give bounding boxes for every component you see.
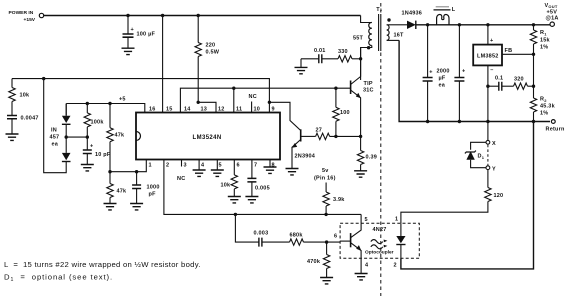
node rail-C100 [126,14,129,17]
wire pin15 to rail [162,16,164,113]
svg-text:55T: 55T [353,36,364,42]
node rail-R1 [532,23,535,26]
node emitter-0.39 [359,135,362,138]
wire FB [502,48,534,54]
node rail-cap2 [458,23,461,26]
wire output return rail [399,40,550,121]
svg-text:15: 15 [166,107,173,113]
resistor 47k lower [107,172,127,204]
svg-text:100 µF: 100 µF [137,32,156,38]
svg-text:IN: IN [51,128,57,134]
terminal Y [486,166,496,173]
svg-text:+: + [429,70,432,76]
ground pin7 [245,197,258,203]
resistor 220 0.5W [195,16,220,103]
svg-text:680k: 680k [290,233,304,239]
svg-text:5: 5 [365,217,368,223]
wire opto collector up [360,214,362,223]
svg-text:+: + [90,144,93,150]
opto LED [396,223,405,258]
wire output rail [416,24,550,26]
wire FB node to comp node [533,54,535,86]
svg-text:5v: 5v [322,168,329,174]
ground 10uF [81,165,94,171]
svg-text:+: + [490,38,493,44]
wire +15V rail [44,15,361,17]
wire control line pin2 [164,160,361,215]
svg-text:220: 220 [206,43,216,49]
svg-text:2N3904: 2N3904 [295,154,316,160]
svg-text:12: 12 [218,107,225,113]
node pin9 [268,101,271,104]
resistor 3.9k [323,183,345,215]
node TIP base [334,87,337,90]
resistor 0.39 [357,136,377,170]
node pins 12-13 [197,101,200,104]
wire primary bottom to collector [361,46,372,81]
ground pin6 [228,197,241,203]
svg-text:+15V: +15V [24,17,36,23]
svg-text:10 pF: 10 pF [95,152,111,158]
ground 47k lower [104,204,117,210]
svg-text:47k: 47k [115,133,126,139]
stub pin3 NC [177,160,185,183]
node return-cap1 [426,120,429,123]
svg-text:0.005: 0.005 [255,186,270,192]
svg-text:LM3524N: LM3524N [193,135,222,141]
svg-text:47k: 47k [117,189,128,195]
svg-text:NC: NC [249,94,257,100]
svg-text:POWER IN: POWER IN [9,10,34,16]
capacitor 100uF [123,16,156,49]
svg-text:2000: 2000 [437,69,450,75]
resistor R2 45.3k [530,86,555,121]
wire clamp vertical [44,79,66,173]
svg-text:1: 1 [149,163,152,169]
svg-text:320: 320 [514,77,524,83]
wire secondary bottom [387,39,399,41]
inductor L [434,7,456,25]
svg-text:0.39: 0.39 [366,155,378,161]
ground 1000pF [130,204,143,210]
svg-text:16T: 16T [394,33,405,39]
svg-text:10k: 10k [20,93,31,99]
stub pin11 [233,88,235,112]
phase dot secondary [387,18,390,21]
node snubber-collector [359,57,362,60]
svg-text:FB: FB [505,48,513,54]
svg-text:11: 11 [236,107,242,113]
svg-text:LM3852: LM3852 [477,54,499,60]
resistor 100 [333,88,350,136]
node pin1-1000pF [135,170,138,173]
svg-text:6: 6 [237,163,240,169]
terminal VOUT [550,22,554,26]
capacitor 2000uF no2 [454,25,465,122]
wire diode top [65,104,67,116]
wire feedback down [235,214,258,242]
stub pin8 ground [264,160,277,174]
ground 0.39 [354,171,367,177]
svg-text:X: X [492,141,496,147]
wire rail to transformer primary [361,16,372,23]
capacitor 0.005 pin7 [247,160,269,197]
ground 2N3904 [286,169,299,175]
svg-text:9: 9 [272,107,275,113]
resistor 47k upper [107,104,125,172]
svg-text:Y: Y [492,167,496,173]
svg-text:5: 5 [219,163,222,169]
label IN457 ea [50,128,60,148]
svg-text:ea: ea [439,83,446,89]
svg-text:100k: 100k [91,120,105,126]
svg-text:1: 1 [395,217,398,223]
node reg-comp [486,85,489,88]
node +5-100k [86,102,89,105]
svg-text:3: 3 [184,163,187,169]
transformer T1 primary 55T [353,22,372,45]
node rail-cap1 [426,23,429,26]
svg-text:0.01: 0.01 [314,48,326,54]
svg-text:0.1: 0.1 [495,76,503,82]
label POWER IN +15V [9,10,36,23]
svg-text:27: 27 [316,128,323,134]
node 100-27 [334,135,337,138]
capacitor 1000pF [132,172,160,204]
svg-text:R2: R2 [540,97,547,103]
label 5v Pin16 [314,168,336,182]
svg-text:µF: µF [439,76,446,82]
wire emitters line pins 14 11 [180,88,350,112]
stub pin9 [268,102,270,112]
IC LM3524N [136,113,280,160]
svg-text:ea: ea [52,142,59,148]
node rail-reg [486,23,489,26]
ground under 100uF [122,48,135,54]
resistor R1 15k [530,25,550,55]
svg-text:–: – [490,68,493,74]
ground opto emitter [355,258,368,280]
node pin11-emitters [232,87,235,90]
phase dot primary [367,46,370,49]
ground 470k [320,278,333,284]
terminal Return [546,120,565,133]
node return-R2 [532,120,535,123]
node return-cap2 [458,120,461,123]
resistor 27 [316,128,361,140]
svg-text:0.0047: 0.0047 [21,116,39,122]
capacitor 0.01 snubber [301,48,326,63]
node base-470k [325,240,328,243]
svg-text:10: 10 [254,107,261,113]
svg-text:7: 7 [254,163,257,169]
diode 1N4936 [398,11,422,30]
svg-text:+: + [462,69,465,75]
wire reg top [487,25,489,45]
wire X stub [487,122,489,141]
svg-text:VOUT: VOUT [545,3,558,9]
svg-text:(Pin 16): (Pin 16) [314,176,336,182]
node rail-pin15 [161,14,164,17]
svg-text:+5: +5 [119,97,126,103]
wire base drive line [301,135,315,137]
resistor 120 [401,170,503,224]
ground snubber [295,59,308,74]
labels bottom pin numbers [149,163,275,169]
optocoupler 4N27 box [340,223,419,258]
svg-text:31C: 31C [363,88,374,94]
wire comp line pin9 [12,79,269,103]
stub pin4 ground [193,160,206,177]
transformer core [379,14,381,51]
capacitor 10uF softstart [83,137,111,164]
node diode mid [86,135,89,138]
svg-text:14: 14 [184,107,191,113]
transistor 2N3904 [269,102,315,168]
svg-text:@1A: @1A [546,16,559,22]
svg-text:2: 2 [394,263,397,269]
diode clamp lower 1N457 [62,137,71,161]
svg-text:457: 457 [50,135,60,141]
svg-text:10k: 10k [221,183,232,189]
terminal POWER IN [39,13,43,17]
label 2000uF ea [437,69,450,89]
transistor TIP31C [351,48,374,137]
svg-text:0.003: 0.003 [254,231,269,237]
node return-X [486,120,489,123]
resistor 680k [262,233,340,246]
resistor 330 snubber [322,49,361,62]
opto phototransistor [340,223,361,258]
svg-text:4N27: 4N27 [373,227,387,233]
diode clamp upper 1N457 [62,104,71,138]
svg-text:330: 330 [338,49,348,55]
node diode chain junction [65,135,68,138]
svg-text:6: 6 [334,234,337,240]
resistor 10k pin6 [221,160,238,197]
node FB [532,53,535,56]
wire LED return loop [401,122,534,269]
svg-text:Optocoupler: Optocoupler [365,250,394,256]
opto light arrows [371,240,388,249]
svg-text:13: 13 [201,107,208,113]
regulator LM3852 [473,38,502,74]
svg-text:pF: pF [149,192,157,198]
resistor 10k comp [9,79,30,116]
label VOUT +5V @1A [545,3,559,22]
ground comp RC [6,134,19,140]
svg-text:NC: NC [177,176,185,182]
stub pin5 ground [211,160,224,177]
dashed link X-Y [487,145,489,166]
resistor 100k [84,104,104,138]
capacitor 0.0047 [7,116,39,134]
svg-text:D1: D1 [478,154,485,160]
svg-text:TIP: TIP [364,81,373,87]
svg-text:1N4936: 1N4936 [402,11,423,17]
capacitor 0.003 [254,231,269,247]
svg-text:3.9k: 3.9k [333,197,345,203]
isolation dashed line [380,3,382,296]
wire pin1 node [110,160,146,172]
capacitor 2000uF no1 [423,25,433,122]
resistor 320 [502,77,534,90]
wire diode mid to softstart [66,136,87,138]
node rail-R220 [197,14,200,17]
node pin1-47k [108,170,111,173]
svg-text:2: 2 [166,163,169,169]
svg-text:1%: 1% [540,45,548,51]
svg-text:1%: 1% [540,111,548,117]
node divider-comp [532,85,535,88]
svg-text:L: L [452,7,456,13]
wire +5 line [66,104,145,113]
svg-text:470k: 470k [307,259,321,265]
node comp-diode clamp [42,77,45,80]
svg-text:15k: 15k [540,38,551,44]
svg-text:Return: Return [546,127,565,133]
wire reg bottom [487,65,489,121]
svg-text:45.3k: 45.3k [540,104,556,110]
labels top pin numbers [149,107,275,113]
zener D1 [465,142,486,167]
svg-text:1000: 1000 [147,185,160,191]
node control-feedback [234,213,237,216]
svg-text:100: 100 [340,110,350,116]
svg-text:R1: R1 [540,30,547,36]
svg-text:0.5W: 0.5W [206,50,220,56]
node +5-47k [108,102,111,105]
capacitor 0.1 [488,76,503,91]
stub pin10 NC [249,94,257,113]
transformer T1 secondary 16T [387,25,404,41]
wire secondary top to diode [387,24,398,26]
svg-text:120: 120 [494,193,504,199]
svg-text:D1 = optional (see text).: D1 = optional (see text). [4,273,113,284]
svg-text:+: + [131,27,134,33]
resistor 470k [307,242,330,277]
terminal X [486,140,496,147]
svg-text:16: 16 [149,107,156,113]
node control-3.9k [324,213,327,216]
wire bracket pin13-pin12 [198,102,216,112]
svg-text:L = 15 turns #22 wire wrappe: L = 15 turns #22 wire wrapped on ½W resi… [4,260,201,269]
